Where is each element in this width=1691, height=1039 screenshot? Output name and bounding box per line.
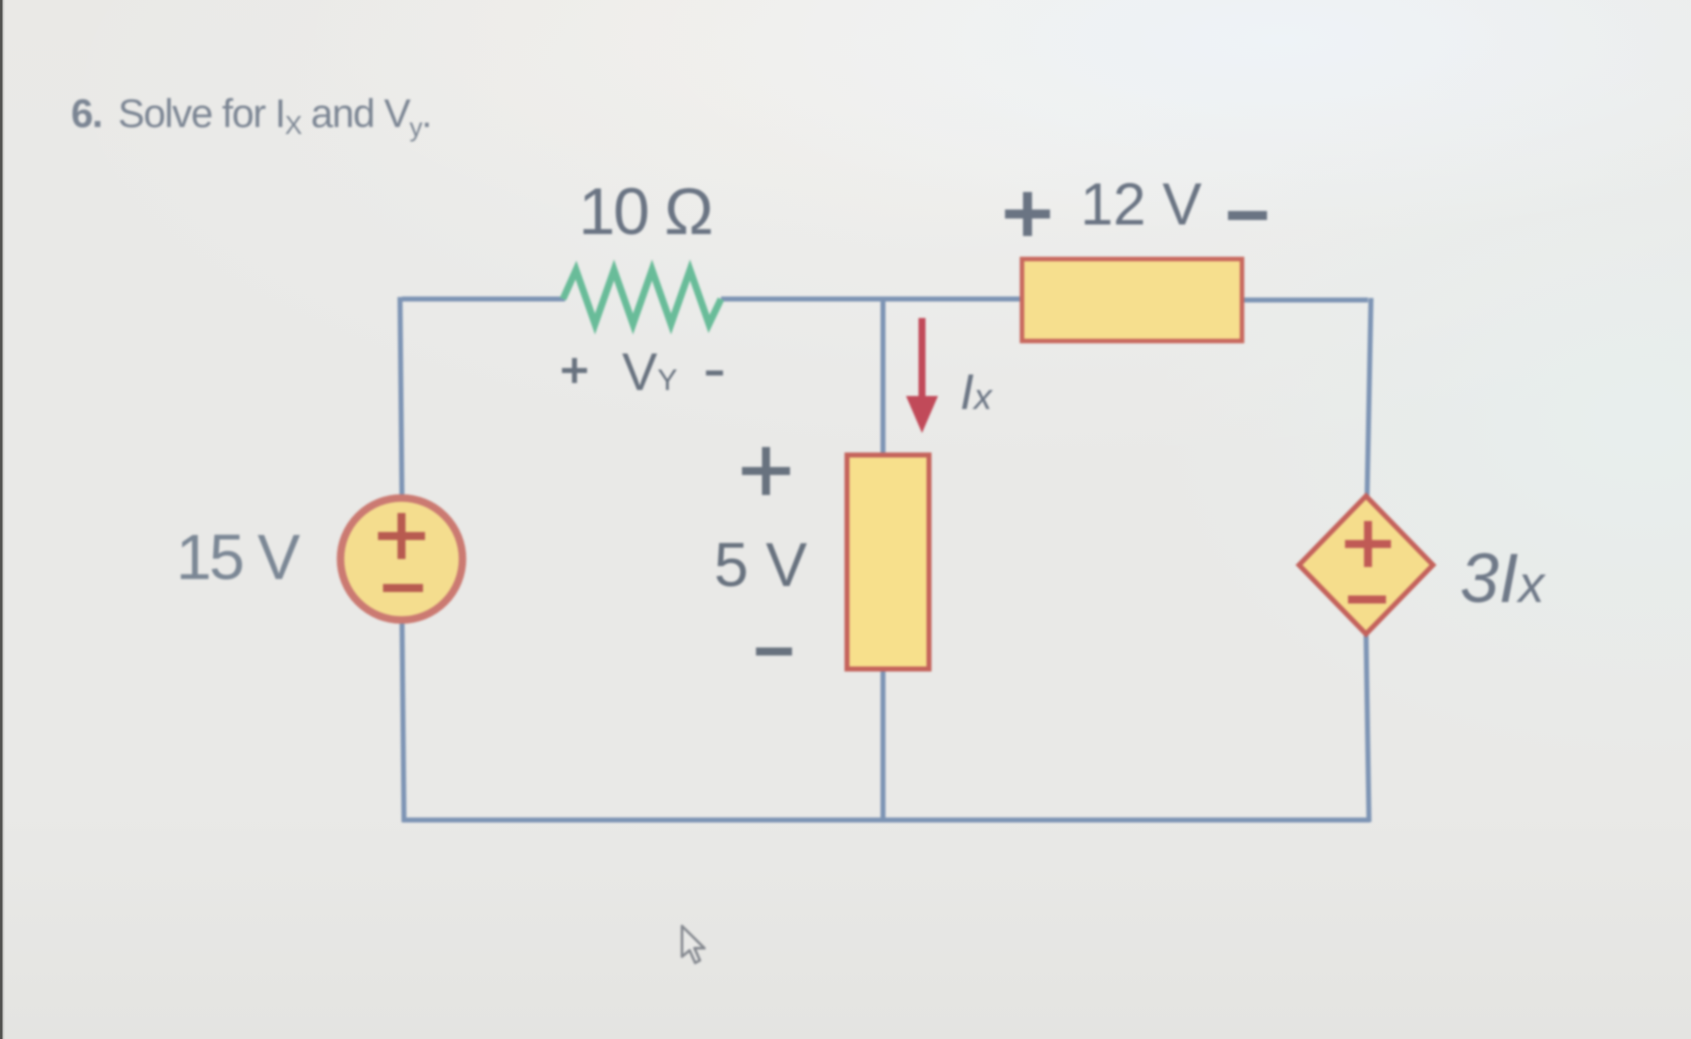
wire top right segment (1242, 298, 1368, 303)
element box 12V (1022, 259, 1242, 341)
minus sign of Vy (706, 371, 723, 376)
wire left lower (402, 620, 404, 822)
resistor R 10ohm zigzag (563, 270, 721, 324)
dependent source diamond 3Ix (1299, 496, 1433, 634)
svg-text:10 Ω: 10 Ω (578, 174, 711, 248)
wire top middle segment (721, 297, 1022, 302)
voltage source 15V circle (341, 498, 463, 620)
svg-text:VY: VY (622, 343, 677, 402)
mouse cursor (682, 926, 704, 963)
plus sign of 5V (742, 447, 790, 495)
svg-text:12 V: 12 V (1080, 172, 1202, 238)
plus sign inside 15V source (378, 513, 425, 559)
minus sign of 12V (1228, 211, 1267, 220)
svg-text:6.Solve for IX and Vy.: 6.Solve for IX and Vy. (71, 92, 431, 142)
minus sign inside 15V source (383, 584, 423, 592)
minus sign inside diamond (1348, 596, 1386, 604)
wire top left segment (402, 297, 565, 302)
wire middle lower (881, 669, 886, 820)
plus sign of Vy (562, 358, 587, 383)
wire left upper (400, 297, 402, 500)
current arrow Ix (906, 318, 938, 433)
wire bottom (402, 818, 1370, 823)
plus sign inside diamond (1345, 521, 1391, 567)
svg-text:Ix: Ix (960, 364, 994, 420)
minus sign of 5V (756, 648, 792, 656)
element box 5V (847, 455, 929, 669)
wire middle upper (881, 299, 886, 455)
plus sign of 12V (1005, 192, 1050, 236)
svg-text:3Ix: 3Ix (1460, 539, 1546, 617)
svg-text:15 V: 15 V (176, 521, 300, 593)
wire right upper (1367, 298, 1371, 500)
svg-text:5 V: 5 V (714, 531, 808, 600)
title (71, 92, 431, 142)
wire right lower (1366, 632, 1369, 822)
